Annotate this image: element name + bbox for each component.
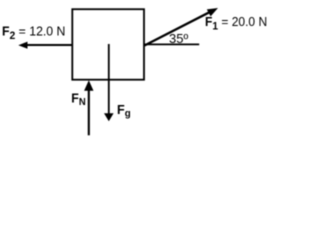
svg-text:35º: 35º [169,31,188,46]
